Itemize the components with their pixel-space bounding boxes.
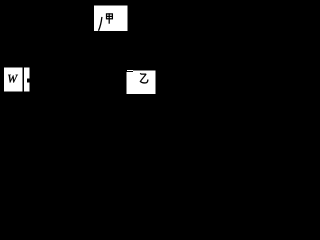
- box 乙 (right white rectangle, stepped top-left corner): [126, 71, 155, 94]
- character 乙: [140, 73, 148, 83]
- wall strip (narrow white strip right of W box): [24, 68, 30, 92]
- notch (black cut in strip right edge): [27, 78, 30, 82]
- box W (left white rectangle): [4, 68, 23, 92]
- box 甲 (top white rectangle): [94, 5, 128, 31]
- letter W: [8, 75, 18, 83]
- character 甲: [106, 13, 113, 23]
- tab bar above box 乙: [127, 70, 133, 71]
- label l (italic slash inside top box): [99, 17, 102, 31]
